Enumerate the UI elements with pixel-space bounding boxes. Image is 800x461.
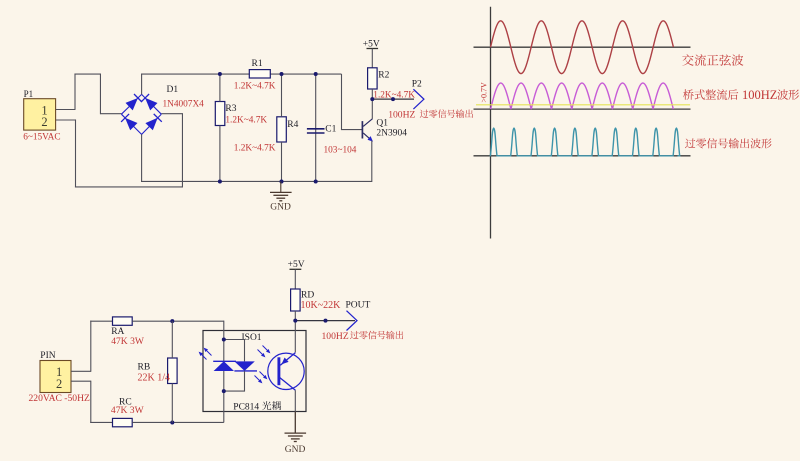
transistor Q1 collector stroke	[363, 119, 372, 127]
value 47K 3W of RC	[111, 405, 145, 416]
wire RA to LED rail	[132, 320, 224, 322]
junction node RB top	[170, 319, 174, 323]
wire R4 top	[281, 74, 283, 117]
wire LED branch bottom	[224, 371, 245, 391]
wire LED left lead upper	[223, 321, 225, 362]
value 1.2K~4.7K of R1	[234, 82, 276, 92]
label RB	[138, 363, 151, 373]
svg-text:Q1: Q1	[376, 119, 388, 129]
junction node R4/+rail	[280, 72, 284, 76]
wire +rail drop to Q1 base	[341, 74, 343, 130]
net label 100HZ signal out (top)	[388, 109, 473, 120]
wire +5V to R2	[371, 49, 373, 68]
resistor R3	[215, 102, 225, 126]
svg-text:R1: R1	[252, 59, 263, 69]
label R2	[378, 71, 389, 81]
resistor RC	[113, 418, 133, 426]
value 220VAC -50HZ of PIN	[29, 393, 91, 404]
wire Q1 emitter	[371, 141, 373, 182]
label PIN	[40, 351, 55, 361]
value 10K~22K of RD	[301, 300, 342, 311]
wire AC2 to bridge right	[161, 113, 183, 115]
svg-text:22K 1/4: 22K 1/4	[138, 373, 171, 384]
label RD	[301, 291, 314, 301]
pin number 1 of PIN	[56, 365, 62, 379]
resistor R2	[368, 68, 378, 89]
svg-text:1.2K~4.7K: 1.2K~4.7K	[234, 82, 276, 92]
wire P1 pin2 bottom run	[75, 186, 183, 188]
value 2N3904 of Q1	[376, 129, 407, 139]
label P2	[412, 80, 422, 90]
label D1	[167, 85, 179, 95]
label C1	[325, 125, 336, 135]
value 1.2K~4.7K of R3	[225, 116, 267, 126]
diode D1-c (bottom-left edge)	[121, 114, 137, 130]
0.7V threshold line	[476, 104, 690, 106]
wire RB top	[171, 321, 173, 358]
label AC sine wave	[682, 54, 743, 66]
pin number 1 of P1	[41, 103, 47, 117]
label pulse waveform	[685, 138, 772, 148]
wire bridge top to +rail	[141, 74, 143, 95]
transistor Q1 emitter stroke	[363, 133, 373, 142]
label R4	[287, 120, 298, 130]
wire P1 pin1 riser	[74, 74, 76, 110]
junction node R3/+rail	[218, 72, 222, 76]
wire RC to LED rail	[132, 421, 224, 423]
svg-text:+5V: +5V	[363, 40, 380, 50]
wire R3 top	[219, 74, 221, 102]
label RA	[111, 327, 124, 337]
capacitor C1	[307, 129, 325, 133]
value 22K 1/4 of RB	[138, 373, 171, 384]
svg-text:47K 3W: 47K 3W	[111, 336, 145, 347]
junction node RD/collector/POUT	[293, 319, 297, 323]
wire LED left lead lower	[223, 371, 225, 422]
resistor RA	[113, 317, 133, 325]
power +5V (top circuit)	[367, 48, 379, 50]
svg-text:10K~22K: 10K~22K	[301, 300, 342, 311]
wire P1 pin1 stub	[56, 109, 75, 111]
value 6~15VAC of P1	[23, 132, 60, 142]
wire to Q1 base	[341, 129, 362, 131]
zero-crossing pulse waveform	[490, 128, 679, 156]
label POUT	[346, 301, 371, 311]
svg-text:2N3904: 2N3904	[376, 129, 407, 139]
wire AC1 to bridge left	[100, 113, 121, 115]
value 1N4007X4 of D1	[163, 100, 205, 110]
wire PIN pin1 stub	[71, 370, 91, 372]
junction node C1/+rail	[314, 72, 318, 76]
svg-text:R4: R4	[287, 120, 298, 130]
svg-text:>0.7V: >0.7V	[480, 82, 489, 103]
svg-text:2: 2	[41, 115, 47, 129]
net label 100HZ signal out (bottom)	[322, 331, 404, 342]
label RC	[119, 398, 132, 408]
resistor R1	[249, 70, 270, 78]
label GND (top circuit)	[270, 203, 291, 213]
label +5V (top circuit)	[363, 40, 380, 50]
svg-text:GND: GND	[270, 203, 291, 213]
pin number 2 of PIN	[56, 377, 62, 391]
junction node on POUT wire	[324, 319, 328, 323]
junction node R4/ground rail	[280, 179, 284, 183]
light arrows into phototransistor (lower)	[255, 372, 268, 384]
junction node RB bottom	[170, 420, 174, 424]
wire phototransistor emitter	[294, 390, 296, 433]
svg-text:RB: RB	[138, 363, 151, 373]
phototransistor base bar	[277, 357, 280, 385]
svg-text:POUT: POUT	[346, 301, 371, 311]
junction node LED top	[222, 338, 226, 342]
optocoupler ISO1 outline	[203, 331, 306, 412]
waveform vertical axis	[490, 7, 492, 239]
svg-text:103~104: 103~104	[324, 146, 357, 156]
svg-text:100HZ: 100HZ	[742, 88, 777, 102]
wire Q1 collector	[371, 100, 373, 119]
wire phototransistor collector	[294, 321, 296, 353]
wire to RC	[90, 421, 112, 423]
rectified 100Hz waveform	[491, 83, 674, 109]
svg-text:1.2K~4.7K: 1.2K~4.7K	[234, 144, 276, 154]
wire ground rail (bottom)	[141, 180, 372, 182]
diode LED1 (up-pointing)	[213, 361, 236, 371]
svg-text:GND: GND	[285, 445, 306, 455]
wire P1 pin1 top run	[74, 73, 101, 75]
svg-text:100HZ: 100HZ	[388, 110, 415, 121]
value 1.2K~4.7K of R4	[234, 144, 276, 154]
wire C1 bottom	[315, 128, 317, 182]
svg-text:PIN: PIN	[40, 351, 55, 361]
resistor R4	[277, 117, 287, 142]
svg-text:47K 3W: 47K 3W	[111, 405, 145, 416]
svg-text:RD: RD	[301, 291, 314, 301]
junction node collector/R2/P2	[370, 97, 374, 101]
label rectified waveform	[683, 88, 799, 102]
wire RD to POUT node	[294, 311, 296, 321]
label R3	[225, 104, 236, 114]
junction node C1/ground rail	[314, 179, 318, 183]
waveform baseline 2	[474, 108, 691, 110]
wire bridge bottom drop	[141, 134, 143, 182]
svg-text:D1: D1	[167, 85, 179, 95]
wire R3 bottom	[219, 126, 221, 183]
wire C1 top	[315, 74, 317, 129]
resistor RD	[291, 289, 301, 311]
light arrows into phototransistor (upper)	[258, 346, 271, 358]
diode D1-a (left-top edge)	[126, 94, 142, 110]
label GND (bottom circuit)	[285, 445, 306, 455]
waveform baseline 1	[474, 46, 691, 48]
svg-text:6~15VAC: 6~15VAC	[23, 132, 60, 142]
bridge rectifier D1 diamond	[121, 94, 161, 134]
value 47K 3W of RA	[111, 336, 145, 347]
port P2 arrow	[413, 89, 424, 109]
diode D1-b (right-top edge)	[141, 94, 157, 110]
wire PIN pin1 riser	[90, 321, 92, 372]
annotation >0.7V	[480, 82, 489, 103]
wire to RA	[90, 320, 112, 322]
svg-text:220VAC -50HZ: 220VAC -50HZ	[29, 393, 91, 404]
label Q1	[376, 119, 388, 129]
wire + rail (top)	[141, 73, 341, 75]
LED emission arrows	[199, 348, 212, 360]
wire collector to P2	[372, 98, 414, 100]
wire PIN pin2 drop	[90, 381, 92, 423]
wire R2 to collector node	[371, 89, 373, 100]
label P1	[24, 89, 34, 99]
power +5V (bottom circuit)	[290, 268, 302, 270]
wire P1 pin2 drop	[75, 119, 77, 187]
phototransistor emitter stroke	[280, 378, 296, 391]
value 103~104 of C1	[324, 146, 357, 156]
svg-text:P2: P2	[412, 80, 422, 90]
label ISO1	[242, 333, 262, 343]
resistor RB	[168, 358, 178, 384]
AC sine waveform	[491, 21, 674, 74]
transistor Q1 base bar	[361, 121, 363, 138]
label R1	[252, 59, 263, 69]
wire AC2 riser	[181, 114, 183, 188]
phototransistor circle	[268, 353, 304, 389]
svg-text:1N4007X4: 1N4007X4	[163, 100, 205, 110]
wire +5V to RD	[294, 269, 296, 289]
wire PIN pin2 stub	[71, 380, 91, 382]
diode LED2 (down-pointing)	[234, 361, 257, 371]
svg-text:2: 2	[56, 377, 62, 391]
value PC814 of ISO1	[233, 401, 281, 412]
wire RB bottom	[171, 384, 173, 423]
connector P1	[24, 99, 56, 130]
svg-text:P1: P1	[24, 89, 34, 99]
svg-text:R2: R2	[378, 71, 389, 81]
wire P1 pin2 stub	[56, 119, 76, 121]
wire LED branch top	[224, 340, 245, 362]
waveform baseline 3	[474, 155, 691, 157]
wire AC1 drop	[99, 74, 101, 115]
ground GND (bottom circuit)	[285, 412, 307, 442]
svg-text:1.2K~4.7K: 1.2K~4.7K	[225, 116, 267, 126]
svg-text:C1: C1	[325, 125, 336, 135]
label +5V (bottom circuit)	[288, 260, 305, 270]
pin number 2 of P1	[41, 115, 47, 129]
svg-text:R3: R3	[225, 104, 236, 114]
diode D1-d (bottom-right edge)	[145, 114, 161, 130]
svg-text:+5V: +5V	[288, 260, 305, 270]
wire POUT	[295, 320, 355, 322]
junction node on P2 wire	[391, 97, 395, 101]
junction node LED bottom	[222, 389, 226, 393]
phototransistor collector stroke	[280, 353, 295, 366]
port POUT arrow	[347, 311, 358, 331]
svg-text:100HZ: 100HZ	[322, 331, 349, 342]
ground GND (top circuit)	[270, 182, 292, 201]
svg-text:PC814: PC814	[233, 402, 259, 412]
wire R4 bottom	[281, 142, 283, 182]
connector PIN	[40, 361, 71, 393]
value 1.2K~4.7K of R2	[373, 90, 415, 100]
junction node R3/ground rail	[218, 179, 222, 183]
